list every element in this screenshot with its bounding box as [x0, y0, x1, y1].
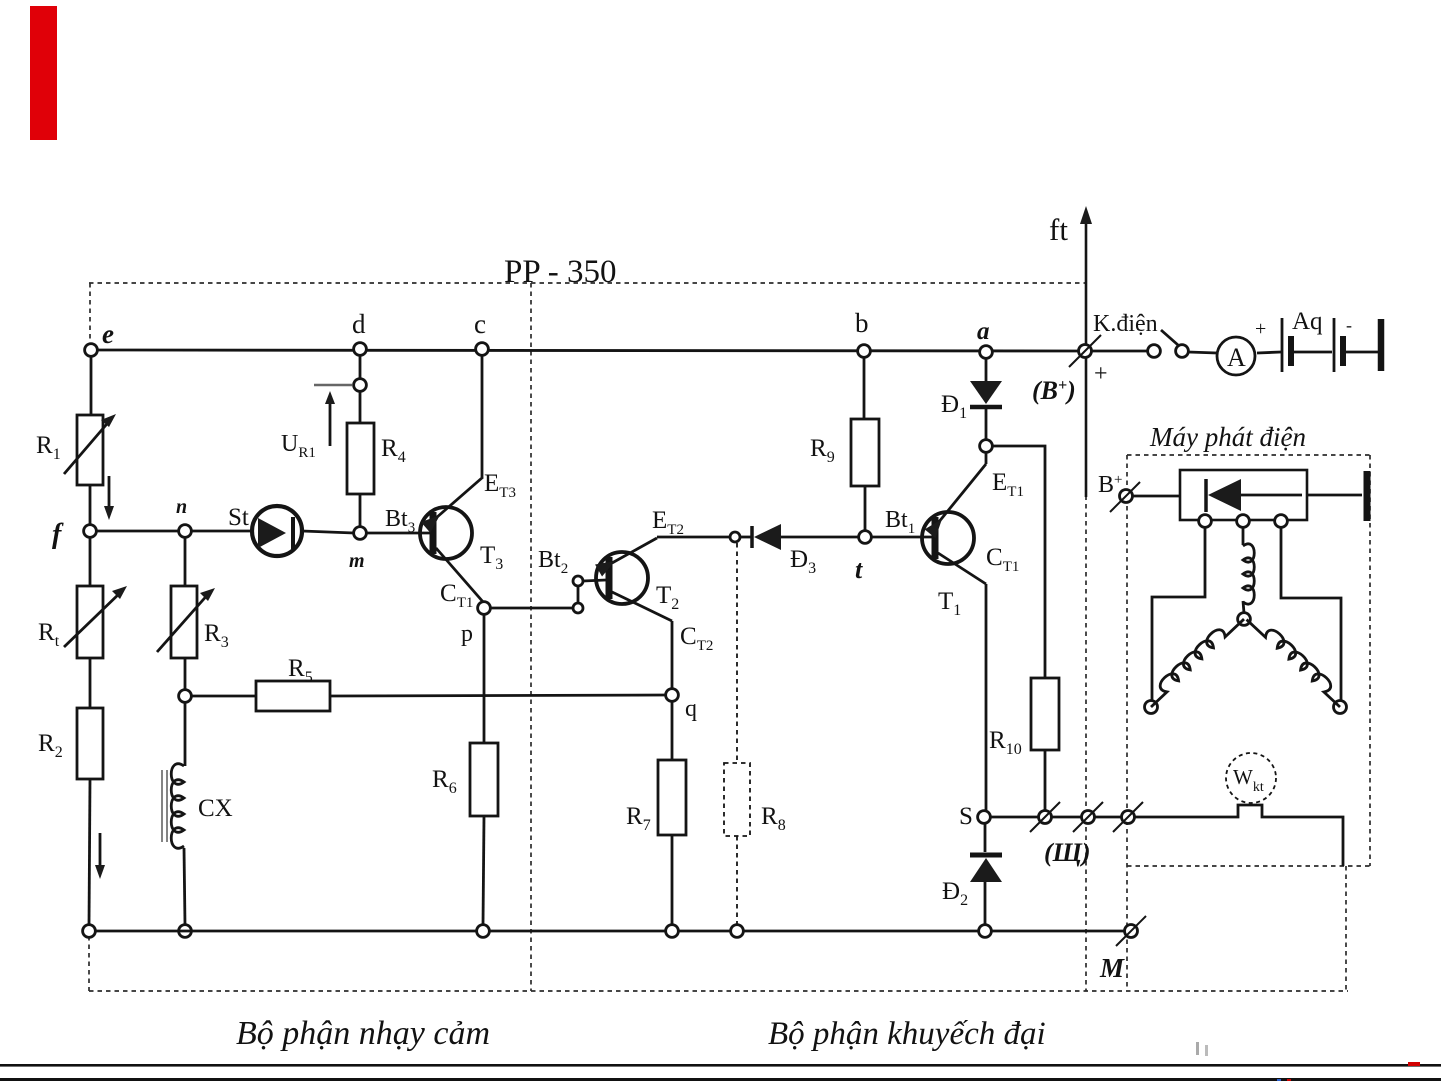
- diode inside rectifier: [1204, 479, 1208, 512]
- svg-text:Máy phát điện: Máy phát điện: [1149, 422, 1306, 452]
- wire top bus e-d-c-b-a to switch: [91, 350, 1079, 351]
- scan artifact bottom black band: [0, 1078, 1441, 1081]
- left winding coil: [1143, 610, 1244, 707]
- dashed divider between sections: [530, 283, 532, 991]
- wire b down to R9: [863, 357, 866, 419]
- Wkt exciter winding dashed circle: [1226, 753, 1276, 803]
- wire m to T3 base: [366, 532, 430, 535]
- terminal circle at box edge: [1082, 811, 1095, 824]
- transistor T1: [922, 512, 974, 564]
- dashed generator box: [1127, 455, 1372, 991]
- svg-text:Bộ phận nhạy cảm: Bộ phận nhạy cảm: [236, 1015, 490, 1052]
- node m: [354, 527, 367, 540]
- terminal circle at generator box edge: [1122, 811, 1135, 824]
- node bottom under CX: [179, 925, 192, 938]
- svg-text:t: t: [855, 555, 863, 584]
- resistor R9: [851, 419, 879, 486]
- resistor R2: [77, 708, 103, 779]
- resistor R4: [347, 423, 374, 494]
- wire c down to T3 emitter: [481, 355, 484, 477]
- wire battery to end terminal: [1346, 351, 1378, 354]
- svg-text:q: q: [685, 696, 697, 722]
- node below R3: [179, 690, 192, 703]
- node t junction: [859, 531, 872, 544]
- wire f row to n and St: [96, 530, 252, 533]
- right phase terminal: [1334, 701, 1347, 714]
- node n: [179, 525, 192, 538]
- resistor Rt (variable): [77, 586, 103, 658]
- diode D1: [985, 358, 988, 381]
- svg-text:K.điện: K.điện: [1093, 311, 1158, 337]
- node below d: [354, 379, 367, 392]
- arrow UR1 up: [329, 398, 332, 446]
- battery Aq cell1 plates: [1281, 318, 1284, 372]
- resistor R1 (variable): [77, 415, 103, 485]
- star point node: [1238, 613, 1251, 626]
- wire T1 emitter up: [985, 452, 988, 464]
- wire B+ to rectifier box: [1133, 495, 1180, 498]
- svg-text:A: A: [1227, 343, 1246, 372]
- node bottom under R6: [477, 925, 490, 938]
- node q: [666, 689, 679, 702]
- node bottom under R8: [731, 925, 744, 938]
- terminal K.dien on axis: [1079, 345, 1092, 358]
- svg-text:(B+): (B+): [1032, 376, 1076, 405]
- switch contact circles: [1148, 345, 1161, 358]
- wire q to R7: [671, 701, 674, 760]
- svg-text:p: p: [461, 621, 473, 647]
- svg-text:ft: ft: [1049, 212, 1068, 247]
- transistor T3: [420, 507, 472, 559]
- wire n down to R3: [184, 537, 187, 586]
- thyristor St: [252, 506, 302, 556]
- svg-text:Aq: Aq: [1292, 308, 1323, 335]
- wire d to node: [359, 355, 362, 379]
- wire node to R10: [992, 446, 1045, 678]
- wire p column down to R6: [483, 614, 486, 743]
- node f: [84, 525, 97, 538]
- svg-text:PP - 350: PP - 350: [504, 254, 616, 290]
- ammeter A: [1217, 337, 1255, 375]
- wire e down to R1: [90, 356, 93, 415]
- right phase wire: [1281, 526, 1341, 701]
- wire R9 to junction t: [864, 486, 867, 531]
- svg-text:c: c: [474, 309, 486, 339]
- wire S row 2: [1052, 816, 1081, 819]
- node bottom under D2: [979, 925, 992, 938]
- svg-text:St: St: [228, 504, 249, 531]
- arrow current I1 down: [108, 476, 111, 512]
- ft axis line: [1085, 218, 1088, 497]
- wire node to CX: [184, 702, 187, 766]
- scan artifact red tick bottom right: [1408, 1062, 1420, 1066]
- wire T2 emitter row: [657, 536, 729, 539]
- wire bottom bus to M: [1125, 925, 1138, 938]
- svg-text:+: +: [1255, 318, 1266, 340]
- resistor R5: [256, 681, 330, 711]
- wire S row to Wkt stand: [1135, 805, 1343, 866]
- end terminal bar: [1378, 319, 1385, 371]
- svg-text:+: +: [1094, 361, 1108, 387]
- svg-text:a: a: [977, 318, 990, 345]
- node c: [476, 343, 489, 356]
- wire lever to ammeter: [1188, 352, 1217, 353]
- wire R6 to bottom bus: [483, 816, 484, 925]
- wire T2 collector down to q: [671, 621, 674, 690]
- stator phase tap circles: [1199, 515, 1212, 528]
- wire ammeter to battery: [1257, 352, 1281, 353]
- wire Rt to R2: [89, 658, 92, 708]
- arrow current down lower-left: [99, 833, 102, 871]
- wire f down to Rt: [89, 537, 92, 586]
- wire S row 3: [1095, 816, 1121, 819]
- wire rectifier to brush terminal: [1307, 494, 1362, 497]
- terminal circle R10/S junction: [1039, 811, 1052, 824]
- node on emitter wire: [730, 532, 740, 542]
- node bottom left: [83, 925, 96, 938]
- scan artifact bottom rule line: [0, 1064, 1441, 1067]
- wire p row to connector: [490, 607, 572, 610]
- node below D1: [980, 440, 993, 453]
- svg-text:d: d: [352, 309, 366, 339]
- dashed box sensitive section border: [89, 283, 1348, 991]
- node a: [980, 346, 993, 359]
- wire St to m: [302, 531, 354, 533]
- transistor T2: [596, 552, 648, 604]
- diode D2: [984, 823, 987, 852]
- svg-text:b: b: [855, 308, 869, 338]
- left phase wire: [1152, 526, 1205, 700]
- wire R3 to node: [184, 658, 187, 690]
- svg-text:M: M: [1099, 953, 1125, 983]
- diode D3: [741, 536, 752, 539]
- wire CX to bottom bus: [184, 848, 185, 925]
- scan artifact gray marks: [1196, 1042, 1199, 1055]
- resistor R6: [470, 743, 498, 816]
- resistor R3 (variable): [171, 586, 197, 658]
- node e: [85, 344, 98, 357]
- rectifier rectangle: [1180, 470, 1307, 520]
- wire K terminal to switch: [1092, 350, 1148, 353]
- node b: [858, 345, 871, 358]
- wire R5 to q: [330, 695, 666, 696]
- wire R7 to bottom bus: [671, 835, 674, 925]
- node d: [354, 343, 367, 356]
- wire R5 row from node to q: [191, 695, 256, 698]
- wire T1 collector down to S: [985, 584, 988, 811]
- wire junction to T1 base: [871, 536, 932, 539]
- svg-text:n: n: [176, 496, 187, 518]
- wire R2 down to bottom bus: [89, 779, 90, 925]
- wire node to R4: [359, 391, 362, 423]
- voltage UR1 reference bar: [314, 384, 352, 386]
- left phase terminal: [1145, 701, 1158, 714]
- svg-text:e: e: [102, 319, 114, 349]
- right winding coil: [1247, 611, 1349, 707]
- node bottom under R7: [666, 925, 679, 938]
- svg-text:CX: CX: [198, 795, 233, 822]
- battery cell2 plates: [1333, 318, 1336, 372]
- node p: [478, 602, 491, 615]
- wire connector to T2 base: [583, 580, 606, 581]
- wire R4 to m: [359, 494, 362, 527]
- inductor CX: [171, 764, 184, 849]
- bottom bus wire: [94, 930, 1125, 933]
- wire R10 down to S bus: [1044, 750, 1047, 810]
- wire S row: [990, 816, 1038, 819]
- resistor R7: [658, 760, 686, 835]
- resistor R8 dashed: [724, 543, 750, 925]
- svg-text:(Щ): (Щ): [1044, 838, 1091, 867]
- terminal B+ generator: [1120, 490, 1133, 503]
- resistor R10: [1031, 678, 1059, 750]
- svg-text:S: S: [959, 803, 973, 830]
- svg-text:Bộ phận khuyếch đại: Bộ phận khuyếch đại: [768, 1016, 1046, 1052]
- wire R1 to f: [89, 485, 92, 526]
- connector circles at Bt2: [573, 603, 583, 613]
- switch lever: [1161, 330, 1178, 345]
- svg-text:m: m: [349, 550, 365, 572]
- scan artifact red bar top-left: [30, 6, 57, 140]
- node S: [978, 811, 991, 824]
- svg-text:-: -: [1346, 315, 1352, 335]
- middle phase winding coil: [1242, 526, 1245, 545]
- brush terminal bar: [1364, 471, 1371, 521]
